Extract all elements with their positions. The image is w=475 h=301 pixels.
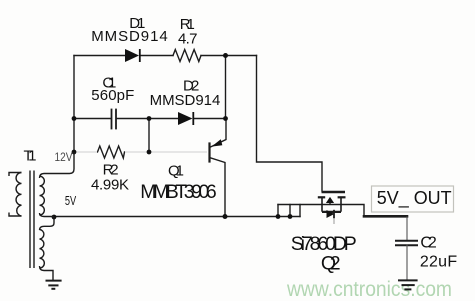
svg-text:4.7: 4.7	[178, 31, 198, 48]
svg-text:MMSD914: MMSD914	[91, 28, 168, 45]
svg-text:www.cntronics.com: www.cntronics.com	[286, 278, 452, 301]
svg-text:Si7860DP: Si7860DP	[291, 233, 357, 255]
svg-text:5V_ OUT: 5V_ OUT	[377, 188, 452, 209]
svg-text:Q1: Q1	[168, 162, 184, 179]
svg-text:5V: 5V	[65, 193, 77, 208]
svg-text:4.99K: 4.99K	[91, 176, 129, 193]
svg-text:Q2: Q2	[321, 253, 341, 275]
svg-text:MMSD914: MMSD914	[150, 92, 221, 109]
svg-text:22uF: 22uF	[420, 254, 457, 271]
svg-text:MMBT3906: MMBT3906	[140, 181, 217, 203]
svg-text:C2: C2	[420, 234, 436, 251]
svg-text:560pF: 560pF	[91, 87, 134, 104]
svg-text:T1: T1	[24, 148, 37, 165]
svg-text:12V: 12V	[55, 150, 73, 164]
